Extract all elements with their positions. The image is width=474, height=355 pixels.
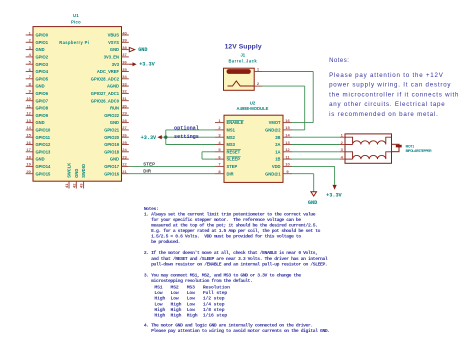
svg-text:Notes:: Notes:	[144, 206, 158, 212]
svg-text:37: 37	[122, 52, 127, 57]
svg-text:12: 12	[285, 147, 290, 152]
svg-text:BIPOLARSTEPPER: BIPOLARSTEPPER	[406, 149, 433, 153]
svg-text:SWCLK: SWCLK	[67, 163, 72, 178]
svg-text:29: 29	[122, 111, 127, 116]
svg-text:16: 16	[26, 140, 31, 145]
svg-text:40: 40	[122, 30, 127, 35]
svg-text:2B: 2B	[275, 135, 280, 140]
svg-text:GPIO26_ADC0: GPIO26_ADC0	[91, 98, 120, 103]
svg-text:39: 39	[122, 38, 127, 43]
svg-text:U2: U2	[250, 101, 256, 106]
svg-text:STEP: STEP	[143, 161, 155, 166]
svg-text:14: 14	[26, 125, 31, 130]
svg-text:20: 20	[26, 169, 31, 174]
svg-text:13: 13	[26, 118, 31, 123]
svg-text:Pico: Pico	[71, 20, 81, 25]
svg-text:GPIO3: GPIO3	[36, 62, 49, 67]
svg-text:33: 33	[122, 81, 127, 86]
svg-text:4: 4	[341, 154, 344, 159]
svg-text:13: 13	[285, 140, 290, 145]
svg-text:GND@1: GND@1	[265, 171, 281, 176]
svg-text:E.g. for a stepper rated at 1.: E.g. for a stepper rated at 1.5 Amp per …	[144, 228, 321, 234]
svg-text:1.5/2.5 = 0.6 Volts. VDD must: 1.5/2.5 = 0.6 Volts. VDD must be provide…	[144, 234, 301, 240]
svg-text:GPIO27_ADC1: GPIO27_ADC1	[91, 91, 120, 96]
svg-text:GND: GND	[74, 169, 79, 178]
svg-text:14: 14	[285, 133, 290, 138]
svg-text:Barrel_Jack: Barrel_Jack	[228, 59, 257, 64]
svg-text:41: 41	[64, 183, 69, 188]
svg-text:GND: GND	[36, 120, 45, 125]
svg-text:32: 32	[122, 89, 127, 94]
svg-text:MS2: MS2	[227, 135, 236, 140]
svg-text:GPIO1: GPIO1	[36, 40, 49, 45]
svg-text:High High High 1/16 step: High High High 1/16 step	[154, 312, 227, 318]
svg-text:SWDIO: SWDIO	[81, 163, 86, 178]
svg-text:RESET: RESET	[227, 149, 241, 154]
svg-text:GND: GND	[110, 157, 119, 162]
svg-text:22: 22	[122, 162, 127, 167]
svg-text:43: 43	[79, 183, 84, 188]
svg-text:42: 42	[71, 183, 76, 188]
svg-text:12: 12	[26, 111, 31, 116]
svg-text:36: 36	[122, 60, 127, 65]
svg-text:GPIO2: GPIO2	[36, 55, 49, 60]
svg-text:High High Low 1/8 step: High High Low 1/8 step	[154, 307, 224, 313]
svg-text:11: 11	[285, 154, 290, 159]
svg-text:A4988-MODULE: A4988-MODULE	[237, 106, 269, 111]
svg-text:GPIO5: GPIO5	[36, 76, 49, 81]
svg-text:DIR: DIR	[227, 171, 234, 176]
svg-text:SLEEP: SLEEP	[227, 157, 241, 162]
svg-text:VSYS: VSYS	[108, 40, 119, 45]
svg-text:GPIO15: GPIO15	[36, 171, 52, 176]
svg-text:4. The motor GND and logic GND: 4. The motor GND and logic GND are inter…	[144, 323, 313, 329]
svg-text:2: 2	[257, 81, 260, 86]
svg-text:17: 17	[26, 147, 31, 152]
svg-text:38: 38	[122, 45, 127, 50]
svg-text:VDD: VDD	[272, 164, 281, 169]
svg-text:VBUS: VBUS	[108, 33, 120, 38]
svg-text:GPIO0: GPIO0	[36, 33, 49, 38]
svg-text:21: 21	[122, 169, 127, 174]
svg-text:Notes:: Notes:	[329, 58, 349, 64]
svg-text:DIR: DIR	[143, 169, 152, 174]
svg-text:settings: settings	[174, 134, 199, 140]
svg-text:3V3: 3V3	[112, 62, 120, 67]
svg-text:10: 10	[26, 96, 31, 101]
svg-text:+3.3V: +3.3V	[139, 62, 155, 68]
svg-text:GPIO16: GPIO16	[104, 171, 120, 176]
svg-text:GPIO17: GPIO17	[104, 164, 120, 169]
svg-text:MS3: MS3	[227, 142, 236, 147]
svg-text:any other circuits. Electrical: any other circuits. Electrical tape	[329, 101, 445, 108]
svg-text:10: 10	[285, 162, 290, 167]
svg-text:microstepping resolution from: microstepping resolution from the defaul…	[144, 278, 253, 284]
svg-text:GPIO8: GPIO8	[36, 106, 49, 111]
svg-text:3. You may connect MS1, MS2, a: 3. You may connect MS1, MS2, and MS3 to …	[144, 272, 301, 278]
svg-text:1. Always set the current limi: 1. Always set the current limit trim pot…	[144, 211, 316, 217]
svg-text:Raspberry Pi: Raspberry Pi	[59, 40, 89, 45]
svg-text:U1: U1	[73, 13, 79, 18]
svg-text:MS1: MS1	[227, 128, 236, 133]
svg-text:24: 24	[122, 147, 127, 152]
svg-text:MS1 MS2 MS3 Resolution: MS1 MS2 MS3 Resolution	[154, 285, 230, 291]
svg-text:GND: GND	[110, 47, 119, 52]
svg-text:AGND: AGND	[107, 84, 119, 89]
svg-text:GPIO28_ADC2: GPIO28_ADC2	[91, 76, 120, 81]
svg-text:GPIO20: GPIO20	[104, 135, 120, 140]
svg-text:J1: J1	[240, 52, 245, 57]
svg-text:Low Low Low Full step: Low Low Low Full step	[154, 290, 227, 296]
svg-text:power supply wiring. It can de: power supply wiring. It can destroy	[329, 82, 451, 89]
svg-text:is recommended on bare metal.: is recommended on bare metal.	[329, 111, 439, 118]
svg-text:GPIO18: GPIO18	[104, 149, 120, 154]
svg-text:for your specific stepper moto: for your specific stepper motor. The ref…	[144, 217, 301, 223]
svg-text:pull-down resistor on /ENABLE: pull-down resistor on /ENABLE and an int…	[144, 261, 327, 267]
svg-text:15: 15	[26, 133, 31, 138]
svg-text:12V Supply: 12V Supply	[225, 43, 262, 50]
svg-text:3V3_EN: 3V3_EN	[104, 55, 119, 60]
svg-text:Low High Low 1/4 step: Low High Low 1/4 step	[154, 301, 224, 307]
svg-text:and that /RESET and /SLEEP are: and that /RESET and /SLEEP are near 3.3 …	[144, 256, 328, 262]
svg-text:Please pay attention to the +1: Please pay attention to the +12V	[329, 72, 444, 79]
svg-text:6: 6	[218, 154, 221, 159]
svg-text:2. If the motor doesn't move a: 2. If the motor doesn't move at all, che…	[144, 250, 318, 256]
svg-text:28: 28	[122, 118, 127, 123]
svg-text:GND: GND	[36, 84, 45, 89]
svg-text:7: 7	[29, 74, 32, 79]
svg-text:GND: GND	[36, 157, 45, 162]
svg-text:Please pay attention to wiring: Please pay attention to wiring to avoid …	[144, 328, 330, 334]
svg-text:+3.3V: +3.3V	[326, 192, 342, 198]
svg-text:GND: GND	[110, 120, 119, 125]
svg-text:27: 27	[122, 125, 127, 130]
svg-text:18: 18	[26, 154, 31, 159]
svg-text:1B: 1B	[275, 157, 280, 162]
svg-text:35: 35	[122, 67, 127, 72]
svg-text:30: 30	[122, 103, 127, 108]
svg-text:GPIO12: GPIO12	[36, 142, 52, 147]
svg-text:15: 15	[285, 125, 290, 130]
svg-text:GPIO6: GPIO6	[36, 91, 49, 96]
svg-text:be produced.: be produced.	[144, 239, 180, 245]
svg-text:1: 1	[257, 67, 260, 72]
svg-text:GPIO7: GPIO7	[36, 98, 49, 103]
svg-text:GPIO14: GPIO14	[36, 164, 52, 169]
svg-text:ADC_VREF: ADC_VREF	[97, 69, 120, 74]
svg-text:measured at the top of the pot: measured at the top of the pot; it shoul…	[144, 222, 318, 228]
svg-text:GPIO19: GPIO19	[104, 142, 120, 147]
svg-text:GPIO10: GPIO10	[36, 128, 52, 133]
svg-text:GPIO22: GPIO22	[104, 113, 120, 118]
svg-text:ENABLE: ENABLE	[227, 120, 244, 125]
svg-text:23: 23	[122, 154, 127, 159]
svg-text:optional: optional	[174, 126, 199, 132]
svg-text:GND: GND	[308, 200, 317, 206]
svg-text:+3.3V: +3.3V	[141, 135, 157, 141]
svg-text:GND@2: GND@2	[265, 128, 281, 133]
svg-text:19: 19	[26, 162, 31, 167]
svg-text:9: 9	[29, 89, 32, 94]
svg-text:GPIO21: GPIO21	[104, 128, 120, 133]
svg-text:16: 16	[285, 118, 290, 123]
svg-text:26: 26	[122, 133, 127, 138]
svg-text:RUN: RUN	[110, 106, 119, 111]
svg-text:2A: 2A	[275, 142, 280, 147]
svg-text:High Low Low 1/2 step: High Low Low 1/2 step	[154, 296, 224, 302]
svg-text:GND: GND	[138, 47, 147, 53]
svg-text:STEP: STEP	[227, 164, 238, 169]
svg-text:GPIO4: GPIO4	[36, 69, 49, 74]
svg-text:GPIO9: GPIO9	[36, 113, 49, 118]
svg-text:31: 31	[122, 96, 127, 101]
svg-text:VMOT: VMOT	[269, 120, 281, 125]
svg-text:34: 34	[122, 74, 127, 79]
svg-text:25: 25	[122, 140, 127, 145]
svg-text:GND: GND	[36, 47, 45, 52]
svg-text:GPIO11: GPIO11	[36, 135, 51, 140]
svg-text:the microcontroller if it conn: the microcontroller if it connects with	[329, 91, 459, 98]
svg-text:1A: 1A	[275, 149, 280, 154]
svg-text:GPIO13: GPIO13	[36, 149, 52, 154]
